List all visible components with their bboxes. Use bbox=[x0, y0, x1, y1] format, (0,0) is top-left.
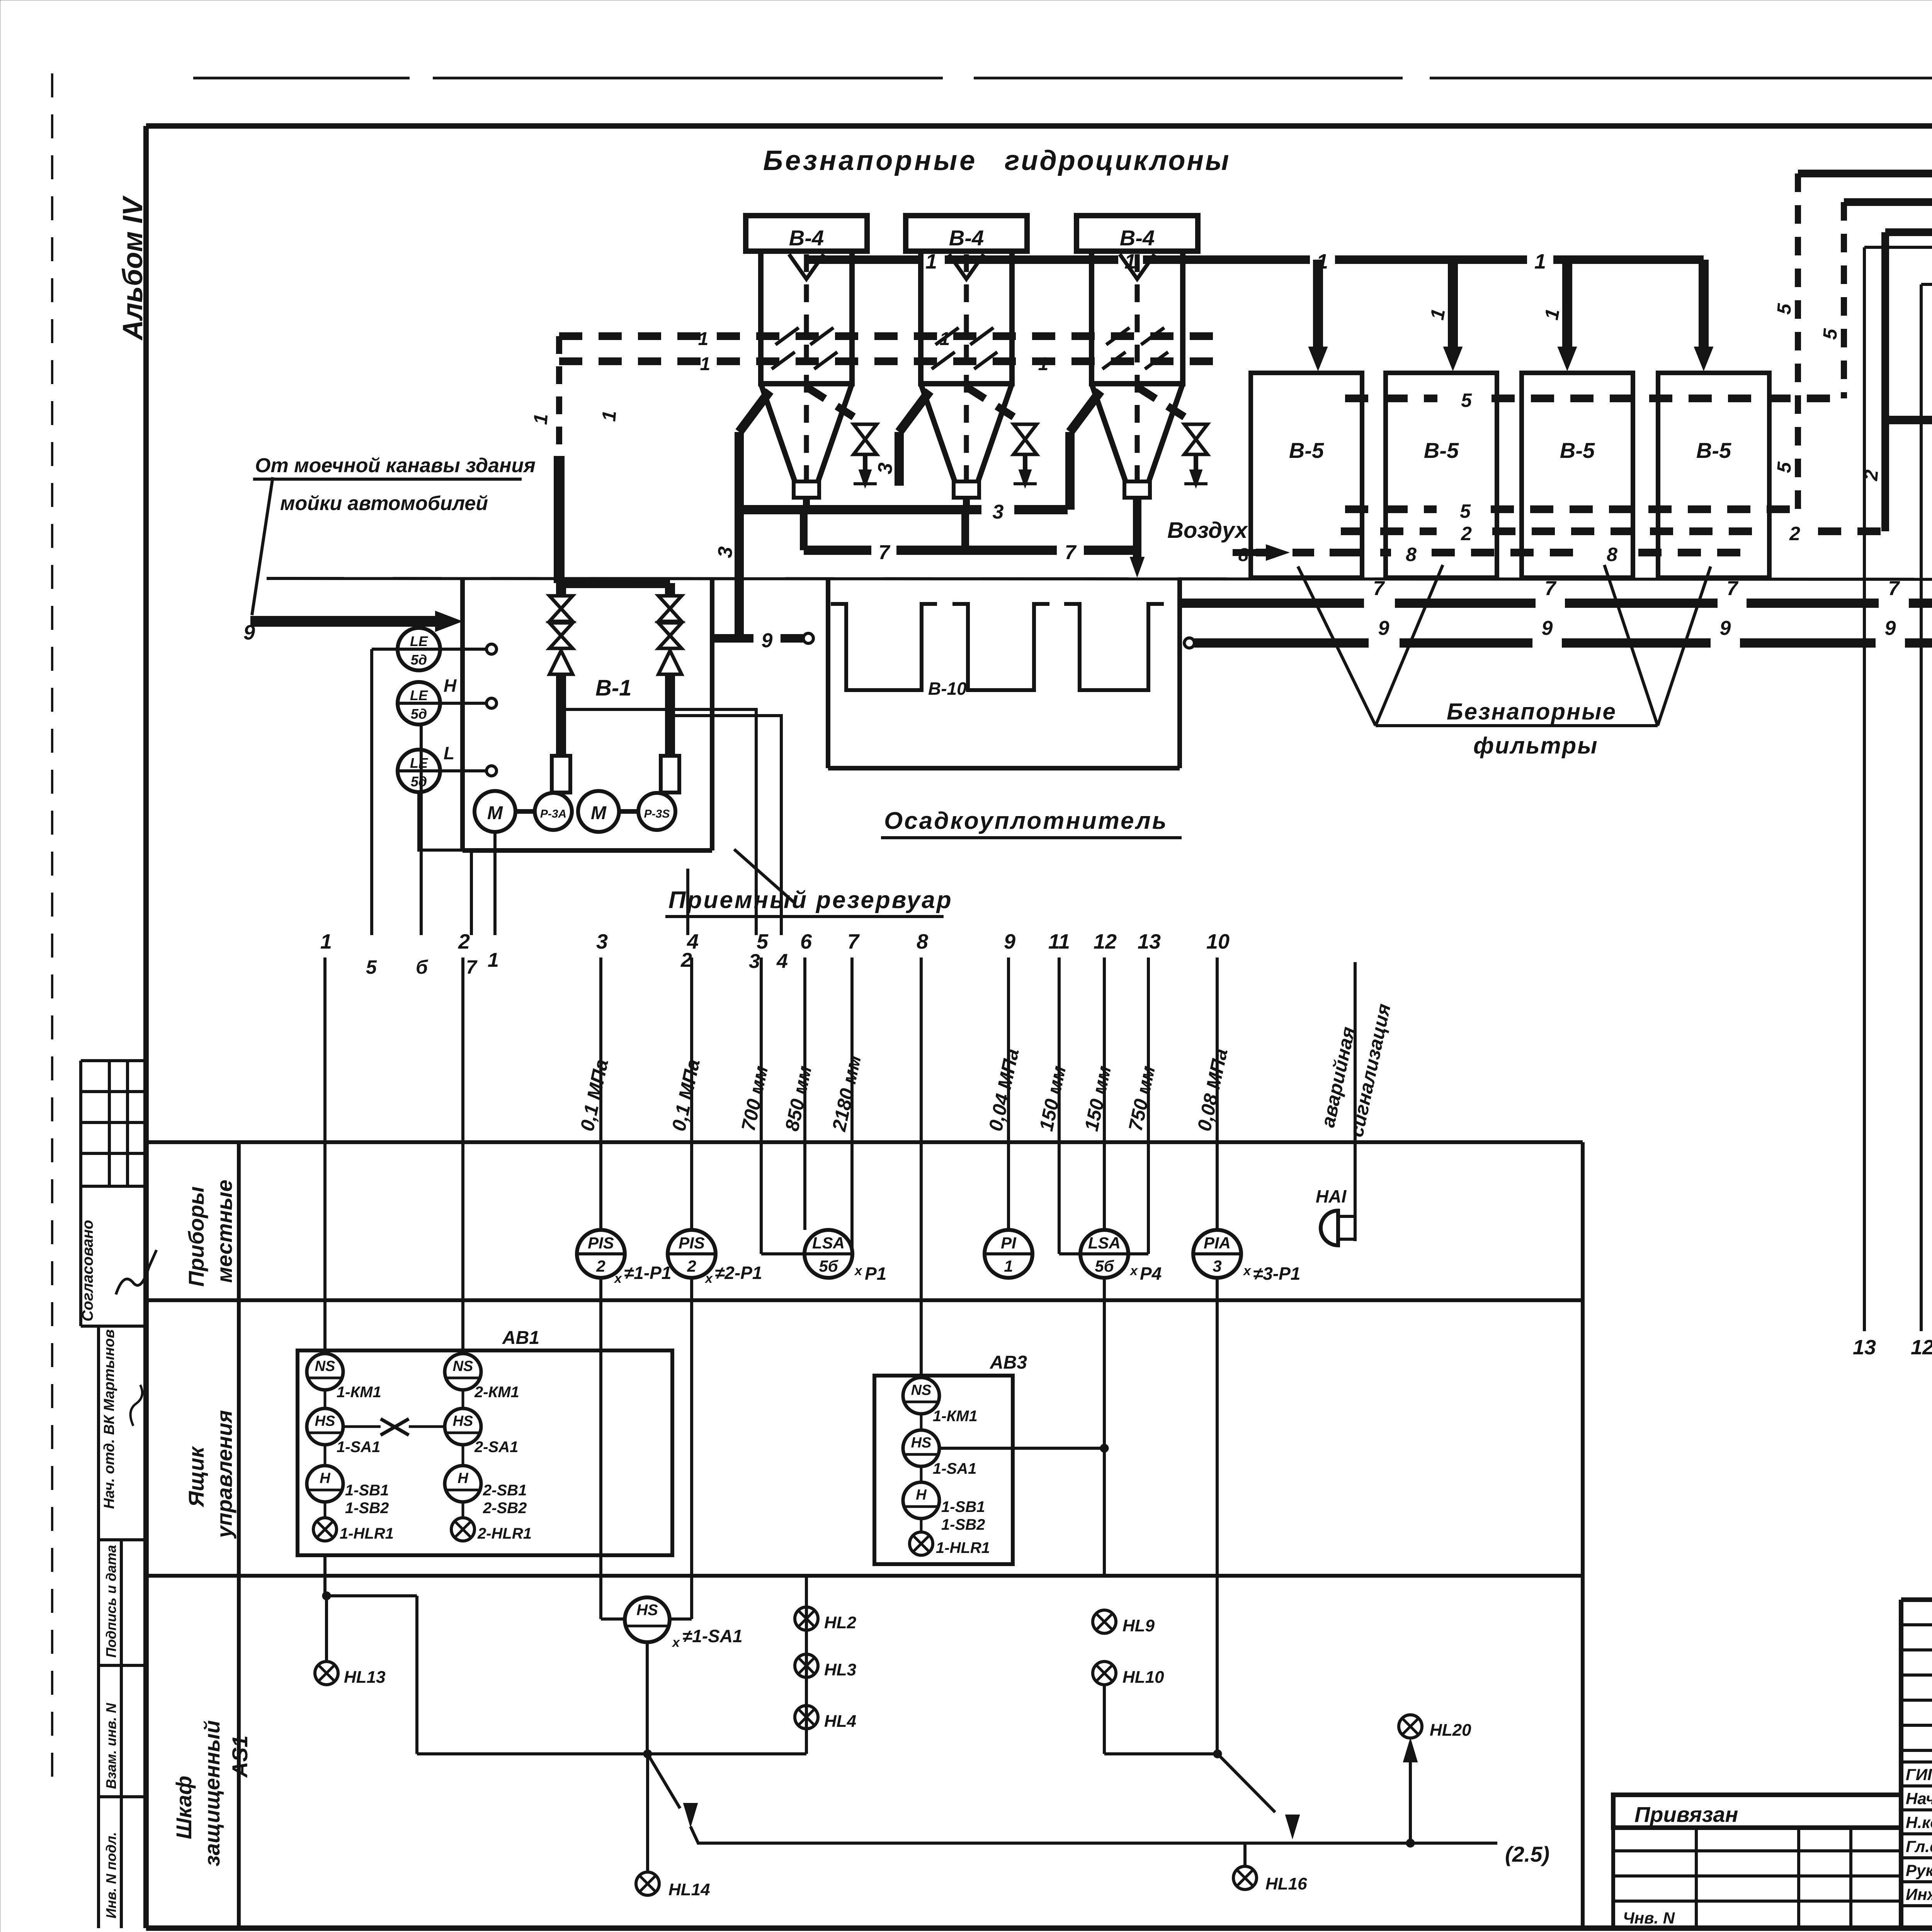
svg-text:фильтры: фильтры bbox=[1473, 733, 1598, 759]
svg-text:NS: NS bbox=[315, 1358, 335, 1374]
svg-text:8: 8 bbox=[1238, 545, 1249, 565]
svg-text:НS: НS bbox=[315, 1413, 335, 1429]
svg-text:(2.5): (2.5) bbox=[1505, 1842, 1549, 1866]
svg-text:1: 1 bbox=[598, 410, 620, 422]
svg-text:х: х bbox=[672, 1635, 680, 1650]
svg-text:≠1-SА1: ≠1-SА1 bbox=[682, 1626, 743, 1646]
svg-text:8: 8 bbox=[917, 930, 928, 953]
svg-text:3: 3 bbox=[714, 546, 737, 559]
svg-text:5б: 5б bbox=[1095, 1257, 1114, 1275]
svg-text:Безнапорные: Безнапорные bbox=[763, 145, 977, 176]
svg-text:4: 4 bbox=[776, 950, 788, 973]
svg-text:Гл.спец: Гл.спец bbox=[1906, 1837, 1932, 1855]
svg-text:7: 7 bbox=[847, 930, 860, 953]
svg-text:10: 10 bbox=[1206, 930, 1230, 953]
svg-text:9: 9 bbox=[1004, 930, 1015, 953]
svg-text:НL16: НL16 bbox=[1265, 1874, 1307, 1893]
svg-text:5д: 5д bbox=[411, 652, 427, 668]
svg-text:3: 3 bbox=[874, 462, 897, 475]
svg-text:2-SВ1: 2-SВ1 bbox=[483, 1482, 527, 1499]
svg-text:3: 3 bbox=[993, 501, 1004, 523]
svg-text:х: х bbox=[854, 1264, 863, 1278]
svg-text:7: 7 bbox=[466, 956, 478, 978]
svg-text:7: 7 bbox=[1888, 577, 1900, 600]
svg-text:Нач.отд.: Нач.отд. bbox=[1906, 1789, 1932, 1808]
svg-text:1: 1 bbox=[1534, 250, 1546, 273]
svg-text:7: 7 bbox=[1373, 577, 1385, 600]
svg-text:1: 1 bbox=[1124, 250, 1136, 273]
svg-text:РIS: РIS bbox=[679, 1234, 705, 1252]
svg-text:1: 1 bbox=[320, 930, 332, 953]
svg-text:13: 13 bbox=[1853, 1336, 1876, 1359]
svg-text:В-4: В-4 bbox=[789, 226, 824, 250]
svg-text:8: 8 bbox=[1607, 544, 1617, 565]
svg-text:1: 1 bbox=[1038, 354, 1049, 374]
svg-text:Н: Н bbox=[444, 675, 457, 696]
svg-text:≠1-Р1: ≠1-Р1 bbox=[624, 1263, 671, 1283]
svg-text:Нач. отд. ВК Мартынов: Нач. отд. ВК Мартынов bbox=[101, 1329, 117, 1509]
svg-text:НS: НS bbox=[911, 1435, 932, 1451]
svg-text:5: 5 bbox=[1461, 389, 1472, 411]
svg-text:1: 1 bbox=[529, 413, 552, 425]
svg-text:НS: НS bbox=[453, 1413, 473, 1429]
svg-text:АВ3: АВ3 bbox=[990, 1352, 1027, 1373]
svg-text:7: 7 bbox=[1727, 577, 1739, 600]
svg-text:7: 7 bbox=[1065, 541, 1077, 564]
svg-text:1-НLR1: 1-НLR1 bbox=[936, 1539, 990, 1556]
svg-text:ГИП: ГИП bbox=[1906, 1765, 1932, 1784]
svg-text:х: х bbox=[704, 1271, 713, 1286]
svg-text:LSА: LSА bbox=[1088, 1234, 1121, 1252]
svg-text:Ящик: Ящик bbox=[184, 1446, 208, 1508]
svg-text:1: 1 bbox=[698, 329, 709, 349]
svg-text:1-НLR1: 1-НLR1 bbox=[340, 1525, 394, 1542]
svg-text:12: 12 bbox=[1094, 930, 1117, 953]
svg-text:LЕ: LЕ bbox=[410, 633, 428, 649]
svg-text:5д: 5д bbox=[411, 706, 427, 722]
svg-text:М: М bbox=[487, 803, 503, 823]
svg-text:9: 9 bbox=[1378, 617, 1389, 639]
svg-text:1: 1 bbox=[488, 949, 499, 971]
svg-text:От моечной канавы здания: От моечной канавы здания bbox=[255, 454, 536, 477]
svg-text:Инв. N подл.: Инв. N подл. bbox=[103, 1832, 119, 1918]
svg-text:LЕ: LЕ bbox=[410, 755, 428, 771]
svg-text:М: М bbox=[591, 803, 607, 823]
svg-text:защищенный: защищенный bbox=[200, 1720, 224, 1866]
svg-text:Альбом IV: Альбом IV bbox=[117, 195, 148, 341]
svg-text:НL10: НL10 bbox=[1122, 1668, 1164, 1687]
svg-text:х: х bbox=[1129, 1264, 1138, 1278]
svg-text:1-SА1: 1-SА1 bbox=[337, 1439, 380, 1456]
svg-text:NS: NS bbox=[453, 1358, 473, 1374]
svg-text:1-SВ2: 1-SВ2 bbox=[941, 1516, 985, 1533]
svg-text:2: 2 bbox=[687, 1257, 696, 1275]
svg-text:АS1: АS1 bbox=[228, 1735, 252, 1778]
svg-text:9: 9 bbox=[762, 629, 773, 652]
svg-text:РIS: РIS bbox=[588, 1234, 614, 1252]
svg-text:В-4: В-4 bbox=[1120, 226, 1155, 250]
svg-text:5б: 5б bbox=[819, 1257, 838, 1275]
svg-text:2-SА1: 2-SА1 bbox=[474, 1439, 518, 1456]
svg-text:≠2-Р1: ≠2-Р1 bbox=[715, 1263, 762, 1283]
svg-text:В-1: В-1 bbox=[595, 675, 631, 701]
svg-text:В-5: В-5 bbox=[1289, 438, 1324, 463]
svg-text:LЕ: LЕ bbox=[410, 687, 428, 703]
svg-text:Н.контр.: Н.контр. bbox=[1906, 1813, 1932, 1832]
svg-text:Привязан: Привязан bbox=[1634, 1802, 1738, 1827]
svg-text:управления: управления bbox=[212, 1410, 236, 1539]
svg-text:х: х bbox=[1243, 1264, 1252, 1278]
svg-text:7: 7 bbox=[1545, 577, 1557, 600]
svg-text:1-КМ1: 1-КМ1 bbox=[337, 1384, 381, 1401]
svg-text:Приборы: Приборы bbox=[184, 1186, 208, 1287]
svg-text:1-SВ2: 1-SВ2 bbox=[345, 1500, 389, 1517]
svg-text:Осадкоуплотнитель: Осадкоуплотнитель bbox=[884, 808, 1168, 834]
svg-text:2-КМ1: 2-КМ1 bbox=[474, 1384, 519, 1401]
svg-text:Чнв. N: Чнв. N bbox=[1623, 1909, 1675, 1927]
svg-text:Р-3S: Р-3S bbox=[644, 808, 670, 820]
svg-text:9: 9 bbox=[1542, 617, 1553, 639]
svg-text:Безнапорные: Безнапорные bbox=[1447, 699, 1617, 724]
svg-text:5: 5 bbox=[1460, 500, 1471, 522]
svg-text:9: 9 bbox=[243, 621, 255, 644]
svg-text:гидроциклоны: гидроциклоны bbox=[1005, 145, 1230, 176]
svg-text:2: 2 bbox=[596, 1257, 605, 1275]
svg-text:местные: местные bbox=[212, 1180, 236, 1283]
svg-text:Шкаф: Шкаф bbox=[172, 1776, 196, 1839]
svg-text:9: 9 bbox=[1720, 617, 1731, 639]
svg-text:Воздух: Воздух bbox=[1167, 518, 1248, 543]
svg-text:Приемный резервуар: Приемный резервуар bbox=[668, 887, 953, 913]
svg-text:мойки автомобилей: мойки автомобилей bbox=[280, 492, 488, 515]
svg-text:≠3-Р1: ≠3-Р1 bbox=[1253, 1264, 1300, 1284]
svg-text:РIА: РIА bbox=[1204, 1234, 1231, 1252]
svg-text:б: б bbox=[416, 956, 429, 978]
svg-text:1: 1 bbox=[925, 250, 937, 273]
svg-text:Взам. инв. N: Взам. инв. N bbox=[103, 1702, 119, 1789]
svg-text:Р1: Р1 bbox=[865, 1264, 886, 1284]
svg-text:2: 2 bbox=[1461, 523, 1472, 544]
svg-text:НАI: НАI bbox=[1316, 1186, 1347, 1206]
svg-text:Согласовано: Согласовано bbox=[79, 1220, 96, 1321]
svg-text:9: 9 bbox=[1885, 617, 1896, 639]
svg-text:11: 11 bbox=[1048, 930, 1070, 953]
svg-text:5: 5 bbox=[757, 930, 769, 953]
svg-text:NS: NS bbox=[911, 1382, 932, 1398]
svg-text:НL20: НL20 bbox=[1430, 1721, 1471, 1740]
svg-text:Р4: Р4 bbox=[1140, 1264, 1162, 1284]
svg-text:3: 3 bbox=[596, 930, 608, 953]
svg-text:НL13: НL13 bbox=[344, 1668, 386, 1687]
svg-text:х: х bbox=[614, 1271, 622, 1286]
svg-text:2-SВ2: 2-SВ2 bbox=[483, 1500, 527, 1517]
svg-text:8: 8 bbox=[1406, 544, 1417, 565]
svg-text:1-КМ1: 1-КМ1 bbox=[933, 1408, 978, 1425]
svg-text:5: 5 bbox=[366, 956, 377, 978]
svg-text:НL9: НL9 bbox=[1122, 1616, 1155, 1635]
svg-text:Рук.гр.: Рук.гр. bbox=[1906, 1861, 1932, 1879]
svg-text:3: 3 bbox=[749, 950, 760, 973]
svg-text:В-4: В-4 bbox=[949, 226, 984, 250]
svg-text:В-5: В-5 bbox=[1696, 438, 1731, 463]
svg-text:НL2: НL2 bbox=[824, 1613, 857, 1632]
svg-text:4: 4 bbox=[687, 930, 699, 953]
svg-text:2-НLR1: 2-НLR1 bbox=[477, 1525, 532, 1542]
svg-text:Инженер: Инженер bbox=[1906, 1885, 1932, 1903]
svg-text:1: 1 bbox=[700, 354, 711, 374]
svg-text:В-10: В-10 bbox=[928, 679, 967, 699]
svg-text:2: 2 bbox=[458, 930, 470, 953]
svg-text:Р-3А: Р-3А bbox=[540, 808, 566, 820]
svg-text:1: 1 bbox=[1004, 1257, 1013, 1275]
svg-text:12: 12 bbox=[1911, 1336, 1932, 1359]
svg-text:L: L bbox=[444, 743, 454, 763]
svg-text:6: 6 bbox=[800, 930, 812, 953]
svg-text:В-5: В-5 bbox=[1424, 438, 1459, 463]
svg-text:1-SВ1: 1-SВ1 bbox=[941, 1498, 985, 1515]
svg-text:В-5: В-5 bbox=[1560, 438, 1595, 463]
svg-text:НL4: НL4 bbox=[824, 1712, 856, 1731]
svg-text:Подпись и дата: Подпись и дата bbox=[103, 1545, 119, 1658]
svg-text:3: 3 bbox=[1213, 1257, 1221, 1275]
svg-text:2: 2 bbox=[1789, 523, 1800, 544]
svg-text:13: 13 bbox=[1138, 930, 1161, 953]
svg-text:Н: Н bbox=[457, 1470, 469, 1486]
svg-text:1-SА1: 1-SА1 bbox=[933, 1460, 976, 1477]
svg-text:LSА: LSА bbox=[812, 1234, 845, 1252]
svg-text:Н: Н bbox=[916, 1487, 927, 1503]
svg-text:5д: 5д bbox=[411, 774, 427, 789]
svg-text:НL3: НL3 bbox=[824, 1660, 856, 1679]
svg-text:АВ1: АВ1 bbox=[502, 1328, 539, 1348]
svg-text:1-SВ1: 1-SВ1 bbox=[345, 1482, 389, 1499]
svg-text:РI: РI bbox=[1001, 1234, 1017, 1252]
svg-text:НL14: НL14 bbox=[668, 1880, 710, 1899]
svg-text:Н: Н bbox=[320, 1470, 331, 1486]
svg-text:7: 7 bbox=[879, 541, 891, 564]
svg-text:НS: НS bbox=[636, 1602, 658, 1619]
